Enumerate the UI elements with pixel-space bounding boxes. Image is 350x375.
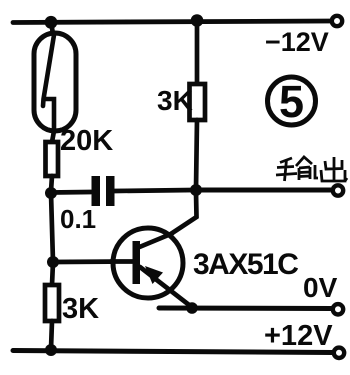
svg-text:3K: 3K (62, 293, 99, 325)
transistor Q 3AX51C body (113, 228, 183, 298)
wire 20K to node C (51, 176, 52, 191)
resistor 20K (46, 142, 59, 176)
wire photocell to 20K (52, 131, 54, 142)
node junction top-left (45, 16, 58, 29)
wire bottom +12V rail (13, 351, 333, 353)
svg-text:3AX51C: 3AX51C (193, 248, 298, 281)
label shuchu output hanzi (276, 157, 347, 181)
wire output (196, 188, 331, 193)
node junction left-mid (45, 187, 57, 199)
wire top -12V rail (13, 21, 331, 23)
capacitor C 0.1 right plate (106, 176, 115, 206)
node junction collector (190, 184, 202, 196)
transistor emitter arrow (145, 266, 163, 284)
terminal output (333, 185, 343, 195)
wire 0V rail (159, 306, 331, 312)
resistor 3K lower (45, 285, 59, 321)
wire base inside (111, 259, 134, 264)
wire top rail to 3K upper (195, 21, 200, 84)
wire capacitor to collector node (115, 190, 195, 191)
transistor base bar (133, 241, 141, 284)
node junction emitter (186, 302, 198, 314)
node junction bottom-left (45, 344, 57, 356)
node junction top rail 3K (191, 14, 204, 27)
svg-text:+12V: +12V (264, 320, 333, 352)
capacitor C 0.1 left plate (92, 176, 101, 206)
terminal -12V (332, 16, 342, 26)
wire left vertical node C to base node (51, 193, 53, 262)
wire base (53, 259, 133, 264)
svg-text:5: 5 (279, 76, 304, 127)
wire 3K to bottom rail (51, 321, 52, 349)
figure number circle 5 (268, 77, 316, 125)
wire collector inside (140, 234, 173, 248)
wire emitter (140, 267, 193, 308)
wire photocell top lead (51, 22, 53, 34)
photocell RG cathode stroke (43, 35, 54, 131)
terminal +12V (334, 348, 344, 358)
svg-text:3K: 3K (157, 85, 193, 116)
photocell RG envelope (34, 33, 76, 131)
svg-text:0V: 0V (303, 272, 338, 303)
node junction base (47, 256, 59, 268)
svg-text:−12V: −12V (265, 27, 329, 57)
wire 3K upper to collector node (196, 120, 197, 189)
terminal 0V (333, 304, 343, 314)
wire collector diagonal (140, 192, 197, 247)
wire base node down to 3K (52, 262, 53, 285)
svg-text:0.1: 0.1 (60, 204, 96, 234)
wire node C to capacitor (51, 190, 91, 195)
svg-text:20K: 20K (60, 125, 113, 157)
resistor 3K upper (190, 84, 206, 120)
